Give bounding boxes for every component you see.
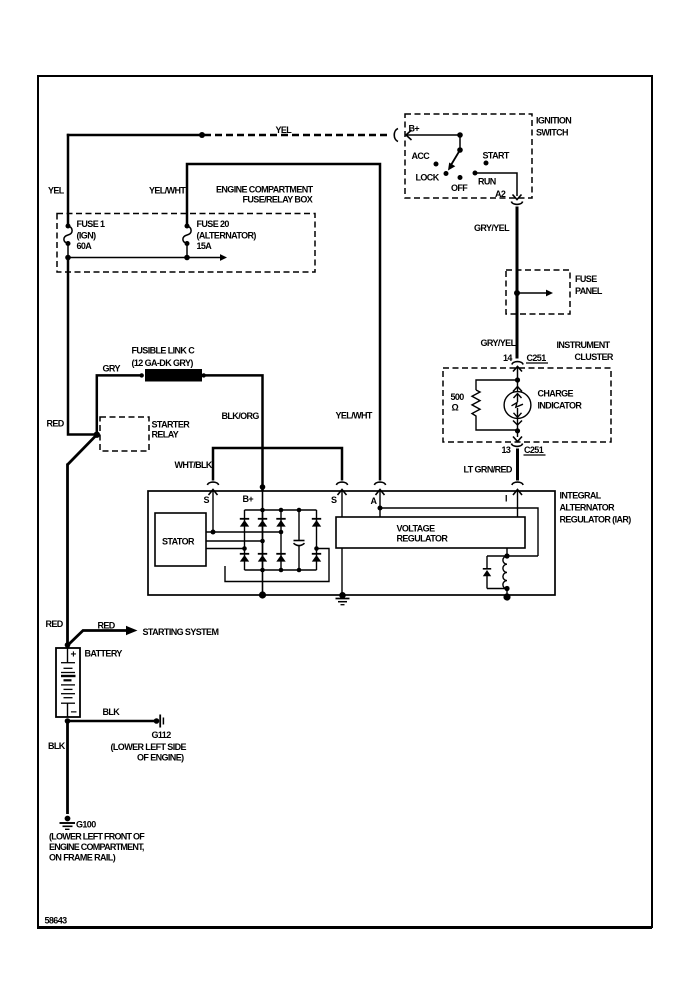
node START — [484, 161, 489, 166]
node battery positive — [65, 642, 71, 648]
connector male C251 pin14 arrow — [513, 367, 522, 372]
node starter relay terminal — [94, 432, 100, 438]
svg-text:58643: 58643 — [45, 916, 68, 926]
svg-text:(LOWER LEFT FRONT OF: (LOWER LEFT FRONT OF — [49, 832, 145, 842]
svg-text:FUSIBLE LINK C: FUSIBLE LINK C — [132, 346, 196, 356]
svg-text:FUSE: FUSE — [575, 274, 597, 284]
svg-text:RED: RED — [47, 419, 65, 429]
node LOCK — [444, 171, 449, 176]
svg-text:60A: 60A — [77, 241, 93, 251]
node charge indicator top — [515, 377, 520, 382]
current arrow above lamp — [513, 387, 522, 392]
diode lower column 3 — [276, 553, 285, 555]
wire LT GRN/RED — [516, 449, 519, 481]
wire YEL vertical left — [67, 134, 70, 226]
svg-text:YEL/WHT: YEL/WHT — [149, 186, 186, 196]
wire BLK battery to G100 — [66, 721, 69, 814]
wire A branch to field — [380, 508, 538, 556]
wire GRY relay to fusible link — [97, 375, 143, 434]
node splice on YEL — [199, 132, 205, 138]
diode lower column 1 — [240, 553, 249, 555]
connector male at I — [513, 490, 522, 496]
svg-text:GRY/YEL: GRY/YEL — [474, 223, 510, 233]
svg-text:LOCK: LOCK — [416, 173, 440, 183]
svg-text:S: S — [204, 495, 210, 505]
rectifier diode column 3 — [280, 510, 282, 570]
connector male at A — [376, 490, 385, 496]
node bottom rail x=281 — [279, 568, 284, 573]
wire fuse panel arrow — [517, 292, 547, 294]
rectifier diode column 2 — [262, 510, 264, 570]
node top rail x=262.5 — [260, 508, 265, 513]
wire stator phase 2 — [206, 540, 263, 542]
wire RED battery feed — [66, 464, 69, 647]
wire stator phase 3 — [206, 548, 245, 550]
svg-text:CLUSTER: CLUSTER — [575, 352, 614, 362]
wire YEL horizontal top solid — [67, 134, 202, 137]
connector male at S left — [209, 490, 218, 496]
node B+ above IAR — [260, 484, 266, 490]
svg-text:S: S — [331, 495, 337, 505]
diode upper column 3 — [276, 518, 285, 520]
wire YEL dashed to ignition switch — [204, 134, 391, 137]
wire BLK/ORG fusible link to alternator B+ — [202, 375, 263, 491]
IAR box — [148, 491, 555, 595]
svg-text:RED: RED — [98, 621, 116, 631]
svg-text:FUSE 1: FUSE 1 — [77, 219, 106, 229]
svg-text:500: 500 — [451, 392, 465, 402]
node ignition B+ — [457, 132, 463, 138]
battery — [56, 648, 80, 717]
connector male A2 arrow down — [513, 195, 522, 200]
svg-text:G100: G100 — [76, 820, 96, 830]
svg-text:FUSE 20: FUSE 20 — [197, 219, 230, 229]
wire S right to internal ground — [341, 548, 343, 594]
svg-text:−: − — [71, 707, 77, 719]
arrow to starting system — [126, 626, 138, 635]
node OFF — [458, 175, 463, 180]
svg-text:INDICATOR: INDICATOR — [538, 401, 583, 411]
wire RUN to A2 — [475, 173, 517, 196]
svg-text:15A: 15A — [197, 241, 213, 251]
diode upper column 4 — [312, 518, 321, 520]
ground G100 — [65, 816, 71, 822]
starter relay box — [100, 417, 149, 451]
svg-text:C251: C251 — [527, 353, 547, 363]
svg-text:OFF: OFF — [451, 183, 468, 193]
svg-text:FUSE/RELAY BOX: FUSE/RELAY BOX — [243, 195, 313, 205]
wire BLK battery to G112 — [68, 720, 157, 723]
svg-text:RELAY: RELAY — [152, 430, 179, 440]
current arrow below lamp — [513, 421, 522, 426]
lamp internal arrows and filament — [512, 394, 524, 418]
wire YEL/WHT from fuse 20 to alternator — [187, 164, 380, 481]
svg-text:Ω: Ω — [452, 403, 459, 413]
connector female at I — [512, 482, 523, 485]
svg-text:YEL: YEL — [48, 186, 65, 196]
svg-text:STATOR: STATOR — [162, 537, 195, 547]
rectifier diode column 4 — [316, 510, 318, 570]
svg-text:INTEGRAL: INTEGRAL — [560, 491, 602, 501]
border frame — [37, 76, 652, 928]
node field bottom — [504, 586, 509, 591]
capacitor C noise suppressor — [298, 510, 300, 540]
starter relay contact blade — [67, 435, 97, 465]
node neutral to diode column 4 — [314, 546, 319, 551]
connector male C251 pin13 arrow — [513, 437, 522, 442]
node phase 2 to diode column 2 — [260, 539, 265, 544]
wire WHT/BLK stator sense — [213, 448, 342, 481]
svg-text:INSTRUMENT: INSTRUMENT — [557, 340, 611, 350]
wire stator phase 1 — [206, 531, 281, 533]
svg-text:RUN: RUN — [478, 177, 496, 187]
svg-text:VOLTAGE: VOLTAGE — [397, 524, 436, 534]
diode lower column 4 — [312, 553, 321, 555]
wire VR to field node — [506, 548, 508, 556]
node ignition wiper pivot — [457, 147, 463, 153]
node bottom rail x=299 — [297, 568, 302, 573]
node bottom rail x=262.5 — [260, 568, 265, 573]
stator box — [155, 513, 206, 566]
svg-text:REGULATOR (IAR): REGULATOR (IAR) — [560, 515, 632, 525]
svg-text:REGULATOR: REGULATOR — [397, 534, 449, 544]
wire RED fuse1 to starter relay — [68, 258, 95, 435]
fusible link C — [140, 373, 144, 377]
wire RED to starting system — [68, 631, 127, 646]
wire field to case ground — [506, 589, 508, 596]
node S tap on phase 1 — [211, 530, 216, 535]
svg-text:BLK: BLK — [103, 707, 121, 717]
connector female C251 pin13 — [511, 444, 522, 447]
svg-text:SWITCH: SWITCH — [536, 128, 568, 138]
svg-text:B+: B+ — [243, 494, 254, 504]
diode upper column 2 — [258, 518, 267, 520]
zener diode field suppression — [486, 556, 488, 569]
node fuse 20 output — [184, 255, 190, 261]
diode upper column 1 — [240, 518, 249, 520]
node top rail x=299 — [297, 508, 302, 513]
resistor 500 ohm shunt — [472, 380, 518, 430]
connector female at ignition B+ — [394, 129, 398, 142]
svg-text:RED: RED — [46, 619, 64, 629]
rectifier top rail — [245, 509, 317, 511]
svg-text:LT GRN/RED: LT GRN/RED — [464, 465, 513, 475]
svg-text:WHT/BLK: WHT/BLK — [175, 460, 213, 470]
voltage regulator box — [336, 517, 525, 548]
instrument cluster box — [443, 368, 611, 442]
svg-text:CHARGE: CHARGE — [538, 389, 574, 399]
svg-text:PANEL: PANEL — [575, 286, 603, 296]
svg-text:GRY/YEL: GRY/YEL — [481, 338, 517, 348]
diode lower column 2 — [258, 553, 267, 555]
connector female at S right — [336, 482, 347, 485]
svg-text:IGNITION: IGNITION — [536, 116, 571, 126]
svg-text:ENGINE COMPARTMENT,: ENGINE COMPARTMENT, — [49, 842, 144, 852]
wire GRY/YEL ignition to fuse panel — [516, 207, 519, 359]
svg-text:BATTERY: BATTERY — [85, 649, 123, 659]
connector female at A — [374, 482, 385, 485]
node battery negative — [65, 718, 71, 724]
charge indicator lamp circle — [504, 392, 531, 419]
connector female C251 pin14 — [512, 362, 523, 365]
svg-text:C251: C251 — [524, 445, 544, 455]
svg-text:13: 13 — [502, 445, 511, 455]
svg-text:BLK/ORG: BLK/ORG — [222, 411, 260, 421]
svg-text:STARTER: STARTER — [152, 420, 191, 430]
wire ignition B+ feed — [406, 134, 460, 136]
ignition switch box — [405, 114, 532, 198]
svg-text:ALTERNATOR: ALTERNATOR — [560, 503, 616, 513]
node phase 3 to diode column 1 — [242, 546, 247, 551]
node field at IAR bottom — [503, 593, 510, 600]
node RUN — [473, 171, 478, 176]
svg-text:ENGINE COMPARTMENT: ENGINE COMPARTMENT — [216, 185, 314, 195]
connector female at S left — [207, 482, 218, 485]
svg-text:ACC: ACC — [412, 151, 431, 161]
ground internal IAR — [339, 592, 346, 599]
fuse F20 15A — [185, 224, 190, 229]
rectifier bottom rail — [245, 569, 317, 571]
svg-text:BLK: BLK — [48, 741, 66, 751]
svg-text:(ALTERNATOR): (ALTERNATOR) — [197, 231, 257, 241]
rectifier diode column 1 — [244, 510, 246, 570]
wire B+ through rectifier to case — [262, 491, 264, 595]
node ACC — [434, 162, 439, 167]
ignition B+ arrow — [406, 130, 412, 140]
svg-text:A2: A2 — [495, 189, 506, 199]
svg-text:I: I — [505, 494, 507, 504]
svg-text:ON FRAME RAIL): ON FRAME RAIL) — [49, 853, 116, 863]
node charge indicator bottom — [517, 419, 519, 438]
engine compartment fuse/relay box — [57, 214, 315, 273]
svg-text:STARTING SYSTEM: STARTING SYSTEM — [143, 627, 219, 637]
connector female below A2 — [511, 202, 522, 205]
wire field top rail — [487, 555, 538, 557]
svg-text:+: + — [71, 650, 77, 661]
svg-text:YEL/WHT: YEL/WHT — [336, 411, 373, 421]
svg-text:OF ENGINE): OF ENGINE) — [137, 753, 184, 763]
wire ignition pivot — [459, 135, 461, 150]
field winding coil — [503, 556, 507, 589]
svg-text:(LOWER LEFT SIDE: (LOWER LEFT SIDE — [111, 742, 187, 752]
svg-text:(IGN): (IGN) — [77, 231, 97, 241]
node B+ at IAR bottom — [259, 591, 266, 598]
fuse panel box — [506, 270, 570, 314]
wire stator neutral to diode column 4 — [225, 549, 329, 582]
node field top — [504, 553, 509, 558]
svg-text:GRY: GRY — [103, 364, 121, 374]
connector male at S right — [338, 490, 347, 496]
svg-text:YEL: YEL — [276, 125, 293, 135]
ignition switch wiper — [450, 150, 461, 168]
wire fuse outputs with arrow — [68, 257, 221, 259]
node top rail x=281 — [279, 508, 284, 513]
node A junction — [378, 506, 383, 511]
node fuse 1 output — [65, 255, 71, 261]
node fuse panel tap — [514, 290, 520, 296]
svg-text:14: 14 — [503, 353, 512, 363]
fuse F1 60A — [66, 224, 71, 229]
node phase 1 to diode column 3 — [279, 530, 284, 535]
ground G112 — [154, 718, 160, 724]
svg-text:START: START — [483, 151, 510, 161]
svg-text:(12 GA-DK GRY): (12 GA-DK GRY) — [132, 358, 194, 368]
svg-text:G112: G112 — [152, 730, 172, 740]
